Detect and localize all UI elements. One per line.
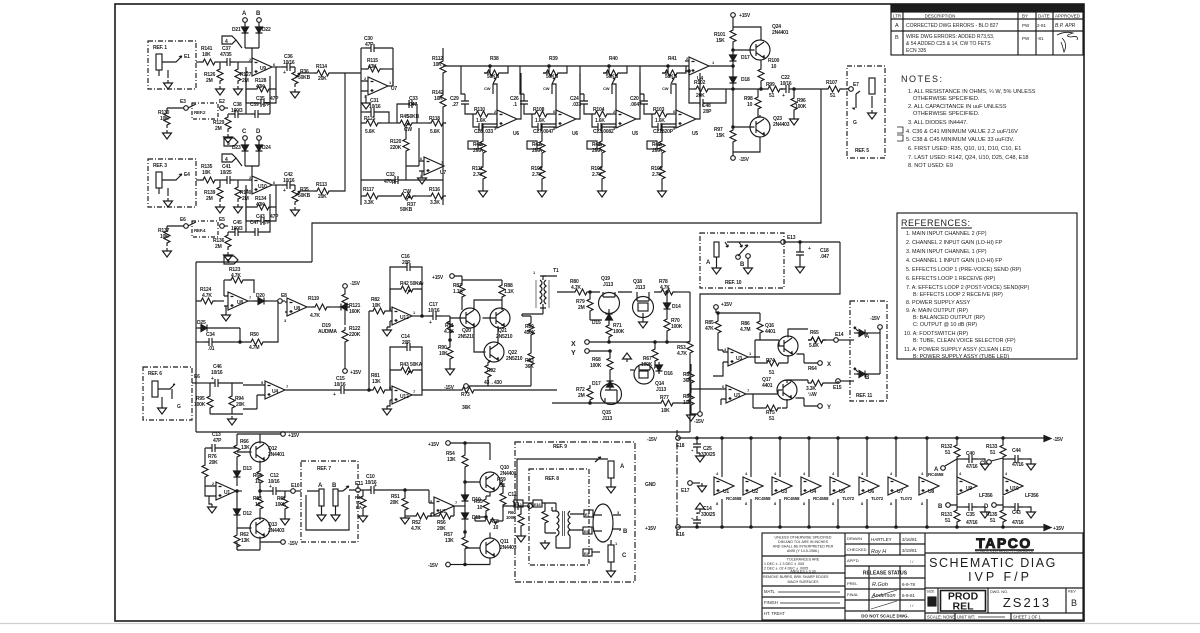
node E6	[178, 217, 196, 228]
svg-text:J113: J113	[602, 416, 612, 422]
diode D21	[232, 22, 249, 36]
svg-text:B: TUBE, CLEAN VOICE SELECTOR: B: TUBE, CLEAN VOICE SELECTOR (FP)	[913, 338, 1016, 344]
svg-text:E1: E1	[184, 54, 190, 60]
svg-text:2M: 2M	[578, 305, 585, 311]
svg-text:R113: R113	[316, 182, 327, 188]
svg-text:D14: D14	[672, 304, 681, 310]
svg-text:5.6K: 5.6K	[430, 129, 440, 135]
svg-text:+15V: +15V	[1053, 526, 1065, 532]
svg-text:OTHERWISE SPECIFIED.: OTHERWISE SPECIFIED.	[913, 96, 980, 102]
svg-text:D18: D18	[741, 77, 750, 83]
svg-text:C34: C34	[206, 332, 215, 338]
svg-text:DESCRIPTION: DESCRIPTION	[925, 14, 956, 19]
jack C REF.9	[607, 540, 628, 577]
svg-text:R43: R43	[400, 362, 409, 368]
svg-text:G: G	[177, 404, 181, 410]
svg-text:20K: 20K	[318, 76, 327, 82]
resistor R137	[158, 226, 178, 246]
title block	[762, 533, 1083, 620]
svg-text:.033: .033	[572, 102, 581, 108]
svg-text:Roy H: Roy H	[871, 549, 886, 555]
resistor R100	[758, 58, 780, 90]
svg-text:U1: U1	[440, 509, 446, 515]
svg-text:-15V: -15V	[1053, 437, 1064, 443]
terminal box E6t	[583, 527, 592, 534]
svg-text:U5: U5	[632, 131, 638, 137]
svg-text:ANSI (Y 14.5-1966.): ANSI (Y 14.5-1966.)	[787, 549, 819, 553]
op-amp U7	[361, 69, 397, 99]
capacitor C30	[361, 36, 393, 86]
svg-text:D15: D15	[592, 320, 601, 326]
node E4	[184, 172, 200, 180]
resistor R87	[453, 280, 465, 310]
sheet border frame	[115, 4, 1084, 621]
resistor R70	[664, 312, 683, 343]
resistor R59	[497, 477, 508, 508]
stage 2 : capacitor C26	[510, 66, 532, 114]
capacitor C15	[333, 376, 370, 398]
svg-text:UNLESS OTHERWISE SPECIFIED: UNLESS OTHERWISE SPECIFIED	[774, 536, 831, 540]
svg-text:CW: CW	[417, 281, 424, 286]
svg-text:10: 10	[747, 102, 753, 108]
ground Q18	[639, 319, 648, 328]
svg-text:DRAWN: DRAWN	[847, 536, 862, 541]
node E5	[219, 217, 228, 228]
svg-text:11. A: POWER SUPPLY ASSY (C: 11. A: POWER SUPPLY ASSY (CLEAN LED)	[904, 347, 1012, 353]
svg-text:U5: U5	[692, 131, 698, 137]
terminal E14	[834, 332, 854, 342]
op-amp U8b	[284, 297, 312, 323]
capacitor C10	[363, 474, 434, 503]
svg-text:-15V: -15V	[350, 281, 361, 287]
svg-text:43→430: 43→430	[484, 380, 502, 386]
terminal A psu	[934, 459, 957, 473]
op-amp U4	[685, 56, 733, 82]
svg-text:.033: .033	[484, 129, 493, 135]
terminal E13	[781, 235, 840, 246]
svg-text:D: D	[930, 601, 935, 607]
terminal B	[256, 11, 261, 22]
stage 3 : ground	[598, 188, 607, 197]
resistor R98	[744, 89, 761, 117]
terminal box E12	[514, 500, 533, 507]
op-amp U3b	[721, 384, 760, 405]
svg-text:+15V: +15V	[645, 526, 657, 532]
svg-text:.047: .047	[820, 254, 829, 260]
pot R38	[484, 56, 508, 94]
svg-text:D13: D13	[243, 466, 252, 472]
capacitor C46	[200, 364, 243, 387]
capacitor C44f feedback	[246, 207, 279, 225]
rail +15V bottom	[645, 525, 1065, 533]
terminal box E7t	[584, 510, 593, 517]
svg-text:.01: .01	[208, 346, 215, 352]
node E2	[219, 99, 228, 110]
svg-text:U9: U9	[966, 486, 972, 492]
svg-text:2N4403: 2N4403	[500, 545, 517, 551]
svg-text:ANGLES ± 0 30: ANGLES ± 0 30	[790, 570, 816, 574]
svg-text:13K: 13K	[445, 538, 454, 544]
svg-text:SIZE: SIZE	[927, 590, 936, 594]
svg-text:5. EFFECTS LOOP 1 (PRE-VOICE): 5. EFFECTS LOOP 1 (PRE-VOICE) SEND (RP)	[906, 267, 1021, 273]
revisions table	[891, 5, 1083, 55]
capacitor C34	[196, 332, 240, 352]
ground C18	[796, 264, 805, 273]
capacitor C40	[957, 451, 990, 470]
REF.6 effects return box	[143, 367, 192, 420]
psu op-amp U5	[830, 437, 855, 528]
transistor Q17	[760, 377, 797, 400]
resistor R90	[438, 340, 453, 366]
svg-text:R.Goh: R.Goh	[872, 582, 888, 588]
ground REF.5	[868, 110, 877, 119]
stage 2 : resistor R108	[532, 107, 556, 124]
transistor Q23	[733, 115, 790, 152]
svg-text:TL072: TL072	[842, 496, 855, 501]
svg-text:C32: C32	[386, 172, 395, 178]
svg-text:-81: -81	[1037, 36, 1044, 41]
transistor Q16	[760, 323, 798, 356]
resistor R141	[200, 46, 218, 65]
svg-text:U7: U7	[391, 86, 397, 92]
svg-text:Anderson: Anderson	[871, 593, 896, 599]
terminal Y	[571, 349, 611, 357]
svg-text:+15V: +15V	[288, 433, 300, 439]
svg-text:R73: R73	[461, 392, 470, 398]
resistor R126	[204, 62, 223, 84]
svg-text:100K: 100K	[613, 329, 625, 335]
svg-text:R50: R50	[250, 332, 259, 338]
diode D23	[232, 140, 249, 154]
terminal box E4t	[583, 549, 600, 556]
svg-text:51: 51	[769, 370, 775, 376]
pot R37	[398, 189, 428, 213]
svg-text:LF356: LF356	[1025, 493, 1039, 499]
svg-text:RC4558: RC4558	[813, 496, 829, 501]
svg-text:SHEET 1 OF 1: SHEET 1 OF 1	[1013, 615, 1042, 620]
svg-text:E14: E14	[835, 332, 844, 338]
svg-text:160K: 160K	[349, 309, 361, 315]
resistor R139	[204, 180, 223, 202]
svg-text:2M: 2M	[242, 196, 249, 202]
resistor R84	[683, 389, 696, 421]
REF.10 footswitch box	[700, 233, 784, 288]
jack B in REF.10	[736, 242, 753, 274]
capacitor C14	[390, 334, 422, 390]
svg-text:47P: 47P	[365, 42, 374, 48]
svg-text:U4: U4	[272, 389, 278, 395]
svg-text:+: +	[283, 70, 286, 76]
svg-text:+: +	[283, 188, 286, 194]
rail -15V top	[647, 436, 1064, 444]
terminal D psu	[984, 496, 1003, 510]
capacitor C16	[390, 254, 422, 316]
svg-text:2. ALL CAPACITANCE IN uuF UNLE: 2. ALL CAPACITANCE IN uuF UNLESS	[908, 104, 1007, 110]
svg-text:R38: R38	[490, 56, 499, 62]
psu op-amp U7	[888, 437, 913, 528]
capacitor C47	[243, 194, 271, 236]
svg-text:1. MAIN INPUT CHANNEL 2 (FP): 1. MAIN INPUT CHANNEL 2 (FP)	[906, 231, 987, 237]
ground	[446, 366, 455, 375]
svg-text:51: 51	[769, 416, 775, 422]
svg-text:B: B	[1071, 598, 1077, 608]
terminal C psu	[980, 458, 1003, 467]
svg-text:E5: E5	[219, 217, 225, 223]
svg-text:3/19/81: 3/19/81	[902, 548, 918, 553]
svg-text:100K: 100K	[590, 363, 602, 369]
resistor R44	[355, 490, 368, 522]
resistor R64b	[253, 466, 263, 492]
right rail wire	[443, 48, 461, 205]
svg-text:R42: R42	[400, 281, 409, 287]
resistor R74	[755, 355, 788, 376]
svg-text:47P: 47P	[270, 96, 279, 102]
top wire from T1	[557, 291, 658, 293]
stage 1 : resistor R111	[472, 164, 486, 188]
svg-text:4.7M: 4.7M	[249, 345, 259, 351]
resistor R80	[570, 279, 591, 295]
ground	[234, 86, 243, 95]
diode D14	[664, 292, 681, 312]
svg-text:E4: E4	[184, 172, 190, 178]
svg-text:C40: C40	[966, 451, 975, 457]
svg-text:E16: E16	[676, 532, 685, 538]
wire diodes to input	[245, 36, 259, 62]
stage 3 : resistor R104	[592, 107, 616, 124]
stage 4 : pot R49	[647, 124, 676, 164]
diode D13	[234, 466, 252, 486]
transformer T1	[533, 268, 559, 308]
capacitor C38	[228, 102, 243, 118]
svg-text:20K: 20K	[236, 402, 245, 408]
left rail wire	[360, 48, 362, 205]
svg-text:220K: 220K	[390, 145, 402, 151]
svg-text:50KB: 50KB	[400, 207, 413, 213]
resistor R85	[705, 318, 723, 350]
size / prod rel / dwg no / rev	[937, 588, 939, 613]
resistor R54	[446, 443, 468, 495]
feedback bus wire	[312, 89, 821, 262]
capacitor C44	[1003, 448, 1036, 470]
svg-text:5. C38 & C45 MINIMUM VALUE 33: 5. C38 & C45 MINIMUM VALUE 33 uuF/3V.	[906, 137, 1015, 143]
svg-text:FINISH: FINISH	[764, 600, 778, 605]
terminal -15V	[237, 540, 299, 550]
svg-text:3.3K: 3.3K	[430, 200, 440, 206]
transistor Q22	[474, 326, 523, 362]
svg-text:100K: 100K	[506, 515, 517, 520]
capacitor C17	[422, 302, 450, 326]
svg-text:10: 10	[493, 525, 499, 531]
svg-text:.0047: .0047	[630, 102, 642, 108]
capacitor C37	[218, 46, 248, 66]
capacitor C43	[1003, 503, 1036, 526]
resistor R52	[405, 513, 431, 532]
resistor R76	[202, 454, 218, 486]
terminal E17 / GND	[645, 481, 707, 494]
svg-text:LTR: LTR	[893, 14, 902, 19]
svg-text:HARTLEY: HARTLEY	[871, 537, 892, 542]
terminal Y out	[796, 398, 832, 411]
resistor R113	[300, 73, 345, 200]
ground	[163, 248, 172, 257]
svg-text:2N5210: 2N5210	[506, 356, 523, 362]
svg-text:REF. 8: REF. 8	[545, 476, 559, 482]
REF.7 loop jacks box	[301, 461, 358, 542]
jfet Q19	[599, 276, 620, 314]
terminal +15V	[343, 369, 362, 376]
svg-text:REF. 3: REF. 3	[153, 163, 167, 169]
resistor R67	[641, 341, 658, 368]
svg-text:13K: 13K	[447, 457, 456, 463]
capacitor C33	[397, 96, 418, 123]
svg-text:R40: R40	[609, 56, 618, 62]
ground Q14 gate	[623, 353, 635, 370]
svg-text:+: +	[374, 483, 377, 489]
terminal -15V loop	[428, 562, 465, 569]
svg-text:DIM AND TOL ARE IN INCHES: DIM AND TOL ARE IN INCHES	[778, 540, 829, 544]
jack A in REF.10	[706, 242, 728, 274]
terminal X out	[797, 354, 832, 368]
svg-text:51: 51	[990, 518, 996, 524]
wire diodes to input	[245, 154, 259, 180]
stage 1 : capacitor C28	[473, 114, 497, 135]
svg-text:10K: 10K	[372, 303, 381, 309]
resistor R120	[390, 128, 419, 180]
svg-text:100K: 100K	[671, 324, 683, 330]
svg-text:220K: 220K	[349, 332, 361, 338]
svg-text:-15V: -15V	[647, 437, 658, 443]
pot R39	[543, 56, 567, 94]
resistor R136	[213, 232, 231, 250]
svg-text:BY: BY	[1022, 14, 1028, 19]
stage 4 : op-amp U5	[672, 73, 700, 137]
svg-text:3/16/81: 3/16/81	[902, 537, 918, 542]
diode D25	[196, 320, 240, 332]
svg-text:4401: 4401	[765, 329, 776, 335]
jfet Q15	[601, 384, 622, 423]
svg-text:REFERENCES:: REFERENCES:	[901, 218, 971, 228]
svg-text:WIRE DWG ERRORS: ADDED R73,53,: WIRE DWG ERRORS: ADDED R73,53,	[906, 34, 994, 40]
stage 4 : resistor R103	[652, 107, 676, 124]
pot R43	[390, 362, 423, 390]
ground	[224, 252, 233, 261]
svg-text:R114: R114	[316, 64, 327, 70]
svg-text:.1: .1	[513, 102, 517, 108]
svg-text:+15V: +15V	[432, 275, 444, 281]
svg-text:C35: C35	[966, 512, 975, 518]
resistor R62	[234, 526, 250, 550]
svg-text:36K: 36K	[462, 405, 471, 411]
resistor R79	[576, 292, 602, 320]
svg-text:51: 51	[990, 450, 996, 456]
svg-text:E16: E16	[534, 502, 541, 507]
resistor R99	[765, 82, 783, 99]
resistor R77	[658, 395, 676, 414]
resistor R89	[502, 316, 536, 342]
op-amp U9	[246, 57, 276, 114]
terminal +15V	[237, 432, 300, 442]
stage 4 : capacitor C20	[630, 66, 652, 114]
svg-text:U8: U8	[928, 489, 934, 495]
svg-text:RC4558: RC4558	[755, 496, 771, 501]
op-amp U8	[224, 292, 254, 310]
svg-text:+15V: +15V	[739, 13, 751, 19]
stage 3 : resistor R106	[591, 164, 605, 188]
wire fet nets	[609, 340, 690, 378]
svg-text:2M: 2M	[215, 244, 222, 250]
svg-text:C39: C39	[250, 102, 259, 108]
resistor R118	[428, 116, 446, 135]
svg-text:DO NOT SCALE DWG.: DO NOT SCALE DWG.	[861, 614, 909, 619]
resistor R116	[428, 187, 446, 206]
svg-text:D21: D21	[232, 27, 241, 33]
notes text block	[897, 74, 1036, 169]
svg-text:REF. 5: REF. 5	[855, 148, 869, 154]
REF.8 inner box	[529, 469, 589, 565]
pennant 4	[222, 36, 242, 48]
svg-text:REF. 9: REF. 9	[553, 444, 567, 450]
svg-text:10: 10	[771, 64, 777, 70]
op-amp U1	[205, 481, 242, 500]
svg-text:U5: U5	[839, 489, 845, 495]
op-amp U10	[246, 175, 276, 232]
REF.9 outer box	[515, 442, 635, 582]
jfet Q18	[633, 279, 654, 319]
svg-text:J113: J113	[656, 387, 666, 393]
capacitor C39	[243, 76, 271, 118]
svg-text:REF. 7: REF. 7	[317, 466, 331, 472]
svg-text:TL072: TL072	[900, 496, 913, 501]
svg-text:+: +	[269, 484, 272, 490]
jfet Q14	[634, 364, 666, 393]
REF.1 input jack box	[148, 41, 196, 89]
svg-text:APP'D: APP'D	[847, 558, 859, 563]
diode D16	[656, 362, 673, 377]
svg-text:47/16: 47/16	[1012, 520, 1024, 526]
transistor Q13	[237, 518, 285, 542]
transistor Q11	[465, 533, 517, 565]
resistor R63	[253, 491, 263, 520]
svg-text:36K: 36K	[525, 364, 534, 370]
resistor R91	[444, 316, 454, 341]
wire loop to jack A	[517, 457, 608, 503]
resistor R83	[683, 364, 721, 389]
resistor R142	[432, 90, 446, 110]
psu op-amp U6	[859, 437, 884, 528]
svg-text:10/16: 10/16	[283, 60, 295, 66]
svg-text:50KB: 50KB	[298, 75, 311, 81]
svg-text:CORRECTED DWG ERRORS - BLO 827: CORRECTED DWG ERRORS - BLO 827	[906, 23, 998, 29]
svg-text:330/25: 330/25	[701, 512, 716, 518]
svg-text:10/16: 10/16	[428, 308, 440, 314]
terminal X	[571, 340, 667, 348]
svg-text:4.7K: 4.7K	[310, 313, 320, 319]
svg-text:+: +	[211, 376, 214, 382]
svg-text:U12: U12	[400, 315, 409, 321]
svg-text:50KB: 50KB	[407, 114, 420, 120]
svg-text:ECN 335: ECN 335	[906, 48, 927, 54]
capacitor C25	[691, 437, 716, 462]
resistor R86	[740, 318, 763, 340]
terminal E15	[833, 379, 854, 391]
svg-text:1.6K: 1.6K	[476, 118, 486, 124]
svg-text:R117: R117	[363, 187, 374, 193]
ground REF.6	[158, 405, 167, 414]
stage 2 : op-amp U6	[552, 73, 580, 137]
svg-text:8. NOT USED: E9: 8. NOT USED: E9	[908, 163, 953, 169]
psu op-amp U3	[772, 437, 800, 528]
svg-text:-15V: -15V	[428, 563, 439, 569]
